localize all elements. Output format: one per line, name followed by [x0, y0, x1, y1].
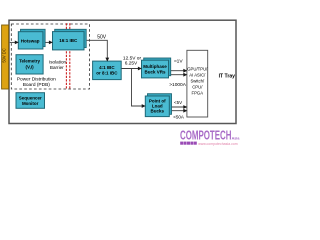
svg-text:www.compotechasia.com: www.compotechasia.com — [198, 142, 238, 146]
svg-text:>1000A: >1000A — [169, 82, 186, 88]
svg-text:Switch/: Switch/ — [190, 79, 205, 84]
svg-text:Asia: Asia — [232, 137, 240, 141]
svg-text:Bucks: Bucks — [151, 108, 165, 113]
svg-text:≈1V: ≈1V — [174, 58, 183, 64]
svg-text:Hotswap: Hotswap — [21, 39, 40, 44]
svg-text:FPGA: FPGA — [192, 90, 204, 95]
svg-text:Power Distribution: Power Distribution — [17, 77, 56, 83]
svg-text:<50A: <50A — [173, 115, 184, 120]
svg-text:COMPOTECH: COMPOTECH — [180, 128, 232, 143]
svg-text:GPU/TPU/: GPU/TPU/ — [187, 67, 208, 72]
svg-text:50V: 50V — [97, 34, 107, 40]
svg-text:CPU/: CPU/ — [192, 84, 203, 89]
svg-text:Sequencer: Sequencer — [19, 96, 42, 101]
svg-text:(V,I): (V,I) — [26, 65, 35, 70]
svg-text:12.5V or: 12.5V or — [123, 55, 142, 61]
svg-text:50V DC: 50V DC — [1, 48, 6, 62]
svg-text:<5V: <5V — [174, 100, 182, 105]
svg-text:4:1 IBC: 4:1 IBC — [99, 65, 115, 70]
svg-text:Barrier: Barrier — [50, 65, 64, 70]
svg-text:or 8:1 IBC: or 8:1 IBC — [96, 71, 118, 76]
svg-text:Monitor: Monitor — [22, 101, 39, 106]
svg-text:AI ASIC/: AI ASIC/ — [189, 73, 206, 78]
svg-text:Isolation: Isolation — [49, 60, 67, 65]
svg-text:Board (PDB): Board (PDB) — [23, 82, 51, 88]
svg-text:6.25V: 6.25V — [125, 61, 138, 67]
svg-text:Buck VRs: Buck VRs — [144, 70, 166, 75]
svg-text:16:1 IBC: 16:1 IBC — [59, 38, 78, 43]
svg-text:Telemetry: Telemetry — [19, 59, 40, 64]
svg-text:IT Tray: IT Tray — [219, 73, 236, 79]
svg-text:Multiphase: Multiphase — [143, 64, 167, 69]
